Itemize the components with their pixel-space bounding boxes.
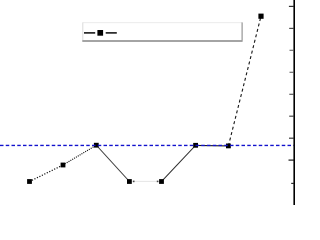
marker point 3 — [94, 143, 99, 148]
axis ticks — [289, 6, 294, 183]
marker point 7 — [226, 144, 231, 149]
series segment 2-3 dotted — [63, 145, 96, 165]
series segment 3-4 solid — [96, 145, 129, 181]
series segment 1-2 dotted — [30, 165, 64, 182]
legend sample line right — [106, 32, 117, 34]
series segment 5-6 solid — [162, 145, 196, 181]
series segment 6-7 solid — [196, 144, 229, 147]
legend box — [82, 22, 242, 41]
legend sample marker — [97, 30, 103, 36]
legend sample line left — [84, 32, 95, 34]
marker point 8 — [258, 14, 263, 19]
series segment 4-5 faint — [129, 180, 161, 182]
blue dashed threshold line — [0, 144, 294, 146]
series segment 7-8 dashed — [228, 16, 261, 146]
marker point 5 — [159, 179, 164, 184]
marker point 6 — [193, 143, 198, 148]
right axis line — [293, 0, 295, 205]
marker point 4 — [127, 179, 132, 184]
marker point 1 — [27, 179, 32, 184]
marker point 2 — [61, 163, 66, 168]
